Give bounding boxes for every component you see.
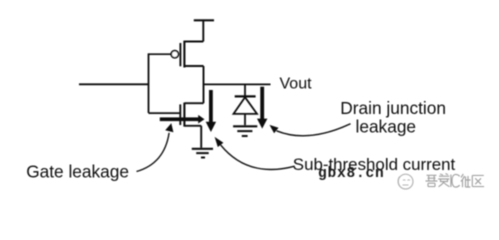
transistor PMOS gate bubble — [171, 51, 178, 58]
svg-text:Gate leakage: Gate leakage — [26, 161, 129, 181]
ground (NMOS source) — [192, 149, 213, 158]
transistor NMOS gate bar — [179, 104, 181, 125]
wire VDD stem — [202, 20, 204, 41]
current arrow gate leakage (thick, right) — [160, 115, 205, 124]
watermark logo circle — [398, 174, 413, 189]
pointer arrowhead gate leakage — [165, 123, 173, 132]
svg-text:gbx8.cn: gbx8.cn — [318, 166, 385, 182]
transistor PMOS gate bar — [179, 43, 181, 66]
wire diode stub from Vout — [244, 84, 246, 95]
diode D1 triangle — [234, 97, 258, 114]
wire PMOS drain lead — [184, 65, 203, 67]
wire PMOS source lead — [184, 41, 203, 43]
wire NMOS source lead — [184, 125, 201, 127]
pointer curve sub-threshold — [221, 145, 295, 170]
diode D1 cathode bar — [235, 95, 256, 97]
wire NMOS source vertical — [200, 126, 202, 148]
current arrow drain junction (thick, down) — [257, 87, 267, 129]
transistor NMOS channel bar — [183, 103, 185, 127]
wire drain vertical (output node) — [203, 66, 205, 103]
current arrow sub-threshold (thick, down) — [206, 90, 216, 132]
pointer curve gate leakage — [137, 133, 170, 172]
watermark text wuai IC shequ (drawn glyphs) — [426, 174, 485, 188]
wire input vertical — [148, 53, 150, 113]
pointer arrowhead drain junction — [270, 125, 279, 133]
wire Vout line — [204, 83, 271, 85]
VDD supply bar — [194, 19, 214, 21]
wire PMOS gate line — [149, 53, 172, 55]
wire NMOS gate line — [149, 112, 181, 114]
svg-text:Drain junction: Drain junction — [340, 98, 446, 118]
pointer curve drain junction — [277, 124, 351, 136]
svg-text:Vout: Vout — [280, 76, 313, 93]
ground (diode) — [233, 126, 257, 136]
pointer arrowhead sub-threshold — [215, 137, 224, 147]
wire NMOS drain lead — [184, 102, 203, 104]
wire diode anode stem — [244, 114, 246, 125]
svg-text:leakage: leakage — [356, 117, 417, 137]
transistor PMOS channel bar — [183, 41, 185, 68]
wire input horizontal — [79, 83, 149, 85]
